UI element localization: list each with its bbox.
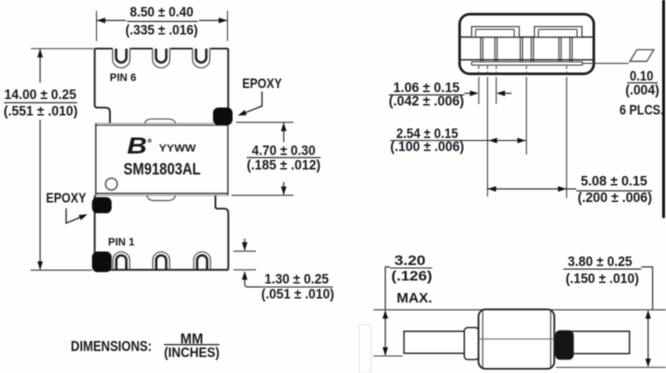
label EPOXY left with leader xyxy=(46,189,89,223)
side-view left lead xyxy=(404,331,468,353)
pin arch bottom 1 xyxy=(113,252,130,270)
svg-text:3.20: 3.20 xyxy=(394,252,425,268)
svg-text:0.10: 0.10 xyxy=(630,67,654,83)
side-view bottom-left reference line xyxy=(374,355,403,357)
dimension 8.50 width xyxy=(97,4,228,41)
end-view body outline xyxy=(460,14,594,74)
epoxy blob middle left xyxy=(92,197,112,213)
svg-text:DIMENSIONS:: DIMENSIONS: xyxy=(71,339,152,355)
svg-text:MAX.: MAX. xyxy=(397,290,433,306)
end-view pin 3 xyxy=(559,37,572,62)
svg-text:(.126): (.126) xyxy=(391,269,432,284)
end-view standoff strip xyxy=(472,62,629,65)
extension line pin1 left edge xyxy=(478,79,480,104)
pin 1 indicator circle xyxy=(106,178,118,190)
side-view collar xyxy=(464,328,479,360)
end-view flange left xyxy=(472,27,520,37)
side-view epoxy blob xyxy=(555,330,574,360)
svg-text:PIN 6: PIN 6 xyxy=(110,72,137,84)
svg-text:6 PLCS.: 6 PLCS. xyxy=(620,101,664,117)
dimension 4.70 body height xyxy=(232,122,321,195)
svg-text:4.70 ± 0.30: 4.70 ± 0.30 xyxy=(252,142,316,158)
svg-text:14.00 ± 0.25: 14.00 ± 0.25 xyxy=(4,86,76,102)
svg-text:EPOXY: EPOXY xyxy=(46,189,87,205)
end-view flange right xyxy=(534,27,582,37)
flatness flag 0.10 6 PLCS xyxy=(620,50,664,118)
centerline pin2 xyxy=(525,80,527,155)
epoxy blob bottom left xyxy=(92,252,112,273)
dimension 5.08 pin span xyxy=(487,173,652,205)
svg-text:PIN 1: PIN 1 xyxy=(108,237,135,249)
svg-text:3.80 ± 0.25: 3.80 ± 0.25 xyxy=(568,253,633,269)
pin arch bottom 3 xyxy=(194,252,211,270)
dimension 1.30 standoff xyxy=(233,239,334,302)
centerline pin3 xyxy=(566,80,568,198)
body bottom bump xyxy=(147,195,176,200)
svg-text:SM91803AL: SM91803AL xyxy=(124,160,201,179)
faint page artifact rectangle xyxy=(359,325,371,373)
pin slot top 2 xyxy=(153,49,170,68)
end-view pin 1 xyxy=(481,37,498,62)
Bourns logo B xyxy=(127,133,151,159)
side-view top reference line xyxy=(374,309,666,311)
pin slot top 3 xyxy=(193,49,210,68)
svg-text:(.551 ± .010): (.551 ± .010) xyxy=(4,104,78,119)
side-view body xyxy=(479,309,555,368)
label EPOXY right with leader xyxy=(237,75,283,118)
dimension 14.00 height xyxy=(4,49,94,271)
svg-text:1.30 ± 0.25: 1.30 ± 0.25 xyxy=(265,270,329,286)
svg-text:(.042 ± .006): (.042 ± .006) xyxy=(389,93,464,108)
svg-text:(.150 ± .010): (.150 ± .010) xyxy=(566,271,639,286)
package body (center) xyxy=(96,123,228,195)
svg-text:(.100 ± .006): (.100 ± .006) xyxy=(390,139,464,154)
body top bump xyxy=(145,119,176,123)
svg-text:5.08 ± 0.15: 5.08 ± 0.15 xyxy=(581,173,648,189)
extension line pin1 right edge xyxy=(495,79,497,104)
end-view pin 2 xyxy=(520,37,533,62)
svg-text:YYWW: YYWW xyxy=(159,143,196,155)
svg-text:(.200 ± .006): (.200 ± .006) xyxy=(578,190,652,205)
svg-text:8.50 ± 0.40: 8.50 ± 0.40 xyxy=(130,4,194,20)
dimension 3.80 body diameter xyxy=(563,253,652,367)
package top-view top section outline xyxy=(95,49,229,124)
dimension 2.54 pin pitch xyxy=(390,125,526,154)
svg-text:EPOXY: EPOXY xyxy=(242,75,282,91)
centerline pin1 xyxy=(487,80,489,197)
svg-text:(.004): (.004) xyxy=(625,82,659,97)
dimension 1.06 pin width xyxy=(389,79,512,108)
package bottom section outline xyxy=(95,195,229,269)
svg-text:(.185 ± .012): (.185 ± .012) xyxy=(247,158,321,173)
pin slot top 1 xyxy=(113,49,130,68)
page edge black bar xyxy=(662,0,665,218)
epoxy blob top right xyxy=(213,108,233,126)
svg-text:B: B xyxy=(127,133,147,159)
svg-text:(.051 ± .010): (.051 ± .010) xyxy=(261,287,334,302)
side-view right lead xyxy=(572,331,630,353)
side-view bottom-right reference line xyxy=(556,366,666,368)
note DIMENSIONS mm/inches xyxy=(71,332,220,361)
svg-text:(INCHES): (INCHES) xyxy=(164,344,220,360)
end-view core band xyxy=(461,37,593,60)
dimension 3.20 max xyxy=(383,252,433,356)
pin arch bottom 2 xyxy=(153,252,170,270)
svg-text:(.335 ± .016): (.335 ± .016) xyxy=(125,22,197,37)
